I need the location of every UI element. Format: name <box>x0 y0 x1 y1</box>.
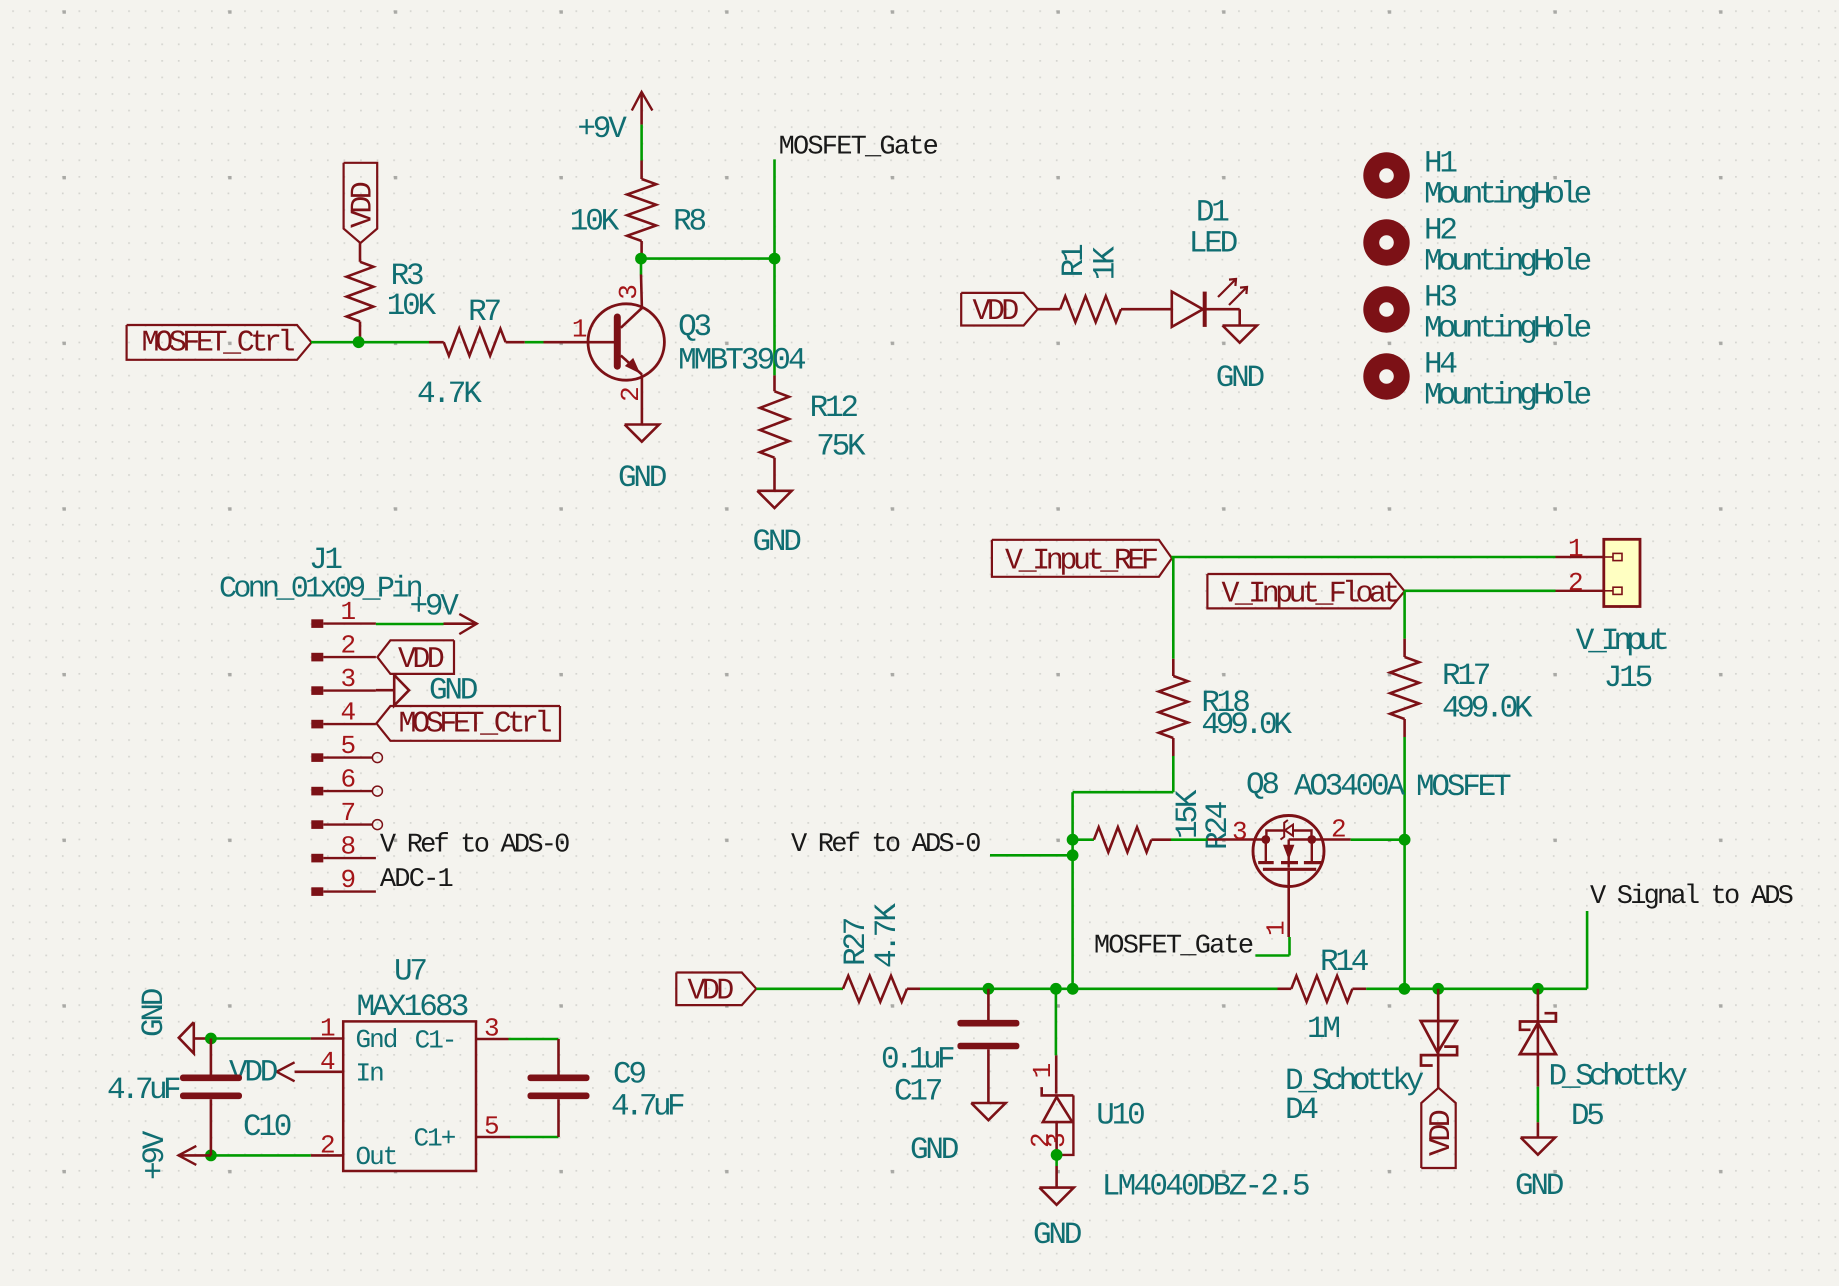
svg-text:In: In <box>356 1059 384 1089</box>
svg-text:6: 6 <box>341 765 355 795</box>
wire D4 to VDD <box>1437 1055 1440 1088</box>
wire MOSFET_Gate vertical <box>773 159 776 375</box>
resistor R24 <box>1094 789 1236 852</box>
wire R18 bottom corner <box>1172 756 1175 792</box>
wire bottom bus right <box>1366 987 1587 990</box>
svg-text:C10: C10 <box>243 1110 291 1145</box>
resistor R17 <box>1390 639 1533 737</box>
junction V Ref lower <box>1067 849 1079 861</box>
resistor R27 <box>839 903 920 1002</box>
global label VDD at R27 <box>676 973 756 1009</box>
svg-text:Gnd: Gnd <box>356 1025 397 1055</box>
pin 3 of J1 <box>311 664 376 695</box>
junction C10 bottom <box>205 1150 217 1162</box>
capacitor C17 <box>881 989 1019 1110</box>
wire bus to D4 <box>1437 989 1440 1021</box>
junction D5 <box>1532 983 1544 995</box>
svg-text:V Ref to ADS-0: V Ref to ADS-0 <box>791 830 980 860</box>
svg-text:7: 7 <box>341 798 355 828</box>
resistor R18 <box>1159 659 1293 756</box>
wire node to R24 <box>1073 838 1094 841</box>
svg-text:MountingHole: MountingHole <box>1424 312 1591 347</box>
capacitor C10 <box>107 1039 291 1156</box>
svg-text:LED: LED <box>1189 227 1238 262</box>
svg-text:Q8: Q8 <box>1246 768 1278 803</box>
pin 9 of J1 <box>311 865 376 896</box>
svg-text:AO3400A: AO3400A <box>1294 770 1405 805</box>
svg-text:H1: H1 <box>1424 147 1457 182</box>
transistor Q8 AO3400A <box>1207 768 1511 937</box>
junction MOSFET_Gate column <box>769 253 781 265</box>
svg-text:2: 2 <box>1331 815 1345 845</box>
pin 6 of J1 (unconnected) <box>311 765 373 796</box>
pin 1 of J1 <box>311 597 376 628</box>
connector J1 <box>219 543 422 607</box>
wire D5 to GND <box>1537 1054 1540 1087</box>
power +9V at J1 pin1 <box>410 590 477 635</box>
svg-text:MOSFET_Gate: MOSFET_Gate <box>1094 932 1253 962</box>
mounting hole H2 <box>1363 214 1590 280</box>
global label VDD at D4 <box>1421 1088 1459 1168</box>
svg-text:2: 2 <box>616 388 646 402</box>
svg-text:VDD: VDD <box>347 182 381 228</box>
svg-text:R8: R8 <box>673 205 705 240</box>
svg-text:GND: GND <box>1216 361 1265 396</box>
svg-text:1K: 1K <box>1089 246 1124 280</box>
svg-text:1M: 1M <box>1307 1012 1339 1047</box>
svg-text:9: 9 <box>341 865 355 895</box>
svg-text:D_Schottky: D_Schottky <box>1549 1060 1688 1095</box>
wire D1 to GND <box>1205 308 1240 311</box>
wire U7 pin5 to C9 <box>510 1136 559 1139</box>
svg-text:4.7uF: 4.7uF <box>107 1073 180 1108</box>
svg-text:VDD: VDD <box>688 975 734 1009</box>
junction V Ref upper <box>1067 834 1079 846</box>
junction R17/drain column bottom <box>1399 983 1411 995</box>
wire bottom bus left <box>920 987 1278 990</box>
mounting hole H4 <box>1363 348 1590 414</box>
svg-text:V Ref to ADS-0: V Ref to ADS-0 <box>380 831 569 861</box>
resistor R1 <box>1038 244 1172 322</box>
svg-text:R17: R17 <box>1442 659 1490 694</box>
svg-text:GND: GND <box>910 1133 959 1168</box>
svg-text:5: 5 <box>484 1112 498 1142</box>
svg-text:GND: GND <box>137 988 172 1037</box>
svg-text:MAX1683: MAX1683 <box>357 990 468 1025</box>
pin 5 of U7 (C1+) <box>414 1112 511 1154</box>
power VDD at U7 pin4 <box>229 1056 295 1091</box>
wire collector drop <box>640 259 643 275</box>
svg-text:LM4040DBZ-2.5: LM4040DBZ-2.5 <box>1102 1170 1309 1205</box>
pin 3 of U7 (C1-) <box>415 1014 509 1056</box>
wire MOSFET_Ctrl to R7 <box>311 341 429 344</box>
svg-text:D1: D1 <box>1196 196 1229 231</box>
svg-text:4.7K: 4.7K <box>870 903 905 968</box>
svg-text:3: 3 <box>614 286 644 300</box>
wire Q8 drain to R17 column <box>1351 838 1405 841</box>
svg-text:Conn_01x09_Pin: Conn_01x09_Pin <box>219 573 422 607</box>
svg-text:+9V: +9V <box>577 112 627 147</box>
svg-text:MOSFET: MOSFET <box>1416 770 1511 805</box>
wire U7 pin3 to C9 <box>509 1038 559 1041</box>
wire V Signal to ADS drop <box>1586 911 1589 989</box>
svg-text:3: 3 <box>341 664 355 694</box>
wire bus to U10 <box>1055 989 1058 1056</box>
svg-text:GND: GND <box>429 674 478 709</box>
voltage reference U10 LM4040DBZ-2.5 <box>1026 1055 1309 1204</box>
pin 1 of U7 (Gnd) <box>311 1014 397 1056</box>
global label MOSFET_Ctrl (left) <box>127 325 312 360</box>
svg-text:ADC-1: ADC-1 <box>380 865 453 895</box>
wire V_Input_REF drop to R18 <box>1172 557 1175 659</box>
svg-text:4.7uF: 4.7uF <box>611 1090 684 1125</box>
resistor R14 <box>1278 945 1369 1047</box>
svg-text:V Signal to ADS: V Signal to ADS <box>1590 882 1793 912</box>
svg-text:8: 8 <box>341 832 355 862</box>
svg-text:4.7K: 4.7K <box>417 377 482 412</box>
svg-text:R27: R27 <box>839 918 874 966</box>
svg-text:VDD: VDD <box>973 295 1019 329</box>
pin 4 of J1 <box>311 698 376 729</box>
svg-text:75K: 75K <box>816 430 866 465</box>
svg-text:2: 2 <box>341 631 355 661</box>
power +9V at U7 pin2 <box>138 1130 211 1180</box>
svg-text:H3: H3 <box>1424 281 1456 316</box>
svg-text:+9V: +9V <box>138 1130 173 1180</box>
junction drain/R17 <box>1399 834 1411 846</box>
svg-text:3: 3 <box>1042 1134 1072 1148</box>
transistor Q3 MMBT3904 <box>544 275 807 425</box>
svg-text:U7: U7 <box>394 955 426 990</box>
svg-text:MMBT3904: MMBT3904 <box>678 343 806 378</box>
LED D1 <box>1172 196 1247 327</box>
resistor R3 <box>347 243 437 342</box>
junction C17 <box>983 983 995 995</box>
svg-text:Out: Out <box>356 1142 397 1172</box>
wire GND node to U7 pin1 <box>206 1037 311 1040</box>
svg-text:5: 5 <box>341 731 355 761</box>
junction C10 top <box>205 1033 217 1045</box>
svg-text:R7: R7 <box>468 295 500 330</box>
power GND at J1 pin3 <box>376 674 478 709</box>
svg-text:Q3: Q3 <box>678 310 710 345</box>
power +9V top <box>577 92 652 147</box>
resistor R8 <box>570 161 706 259</box>
svg-text:V_Input_REF: V_Input_REF <box>1005 545 1157 579</box>
diode D5 D_Schottky <box>1520 1013 1687 1134</box>
svg-text:R12: R12 <box>810 391 858 426</box>
IC U7 MAX1683 <box>343 955 476 1172</box>
junction U10 bottom <box>1051 1149 1063 1161</box>
svg-text:GND: GND <box>1033 1218 1082 1253</box>
global label VDD at J1 pin2 <box>377 640 454 677</box>
global label V_Input_REF <box>992 540 1172 579</box>
svg-text:D4: D4 <box>1285 1093 1318 1128</box>
wire R17 to drain column <box>1403 737 1406 989</box>
junction R3/MOSFET_Ctrl <box>353 336 365 348</box>
ground C17 <box>910 1103 1006 1168</box>
svg-text:2: 2 <box>320 1131 334 1161</box>
svg-text:3: 3 <box>1232 817 1246 847</box>
resistor R12 <box>760 375 866 490</box>
svg-text:GND: GND <box>753 525 802 560</box>
svg-text:MOSFET_Gate: MOSFET_Gate <box>779 133 938 163</box>
svg-text:D5: D5 <box>1571 1099 1603 1134</box>
svg-text:H2: H2 <box>1424 214 1456 249</box>
svg-text:GND: GND <box>1515 1169 1564 1204</box>
svg-text:C1-: C1- <box>415 1026 456 1056</box>
wire collector node bus <box>641 257 775 260</box>
pin 2 of J1 <box>311 631 376 662</box>
global label VDD at R3 top <box>344 163 381 243</box>
svg-text:R14: R14 <box>1320 945 1369 980</box>
wire V_Input_Float drop to R17 <box>1403 591 1406 639</box>
wire +9V to R8 <box>640 125 643 161</box>
junction U10 <box>1050 983 1062 995</box>
svg-text:VDD: VDD <box>229 1056 278 1091</box>
svg-text:2: 2 <box>1568 568 1582 598</box>
svg-text:H4: H4 <box>1424 348 1457 383</box>
svg-text:C1+: C1+ <box>414 1124 456 1154</box>
svg-text:10K: 10K <box>570 205 620 240</box>
junction V Ref column <box>1067 983 1079 995</box>
wire VDD to R27 <box>756 987 843 990</box>
capacitor C9 <box>528 1039 685 1137</box>
junction D4 <box>1432 983 1444 995</box>
wire MOSFET_Gate to Q8 source <box>1255 954 1289 957</box>
wire R7 to Q3 base <box>525 341 544 344</box>
mounting hole H3 <box>1363 281 1590 347</box>
svg-text:MountingHole: MountingHole <box>1424 245 1591 280</box>
wire J1 pin1 to +9V <box>376 623 444 626</box>
svg-text:499.0K: 499.0K <box>1442 692 1533 727</box>
power GND at U7 pin1 <box>137 988 206 1053</box>
svg-text:V_Input: V_Input <box>1576 624 1668 659</box>
resistor R7 <box>417 295 525 412</box>
ground D5 <box>1515 1138 1564 1205</box>
pin 2 of U7 (Out) <box>311 1131 397 1173</box>
svg-text:VDD: VDD <box>398 643 444 677</box>
wire V_Input_Float to J15 pin2 <box>1405 589 1556 592</box>
svg-text:R1: R1 <box>1057 244 1092 277</box>
svg-text:MountingHole: MountingHole <box>1424 178 1591 213</box>
wire bus to D5 <box>1537 989 1540 1022</box>
svg-text:+9V: +9V <box>410 590 460 625</box>
svg-text:C9: C9 <box>613 1058 645 1093</box>
ground Q3 emitter <box>618 425 667 497</box>
pin 5 of J1 (unconnected) <box>311 731 373 762</box>
svg-text:U10: U10 <box>1096 1099 1144 1134</box>
global label VDD at R1 <box>961 293 1037 329</box>
wire R24 to Q8 gate <box>1171 838 1207 841</box>
wire U7 pin2 to +9V <box>211 1154 311 1157</box>
diode D4 D_Schottky <box>1285 1021 1457 1128</box>
wire U10 to GND <box>1055 1155 1058 1166</box>
global label MOSFET_Ctrl at J1 pin4 <box>376 706 560 742</box>
pin 7 of J1 (unconnected) <box>311 798 373 829</box>
global label V_Input_Float <box>1207 574 1404 612</box>
junction R8 bottom <box>635 253 647 265</box>
svg-text:3: 3 <box>484 1014 498 1044</box>
svg-text:MOSFET_Ctrl: MOSFET_Ctrl <box>399 708 552 742</box>
svg-text:499.0K: 499.0K <box>1201 708 1292 743</box>
connector J15 V_Input <box>1556 534 1668 696</box>
wire V Ref to ADS-0 <box>990 854 1073 857</box>
ground U10 <box>1033 1188 1082 1253</box>
mounting hole H1 <box>1363 147 1590 213</box>
svg-text:V_Input_Float: V_Input_Float <box>1222 578 1398 612</box>
pin 4 of U7 (In) <box>295 1047 384 1089</box>
svg-text:VDD: VDD <box>1425 1110 1459 1156</box>
svg-text:MountingHole: MountingHole <box>1424 379 1591 414</box>
pin 8 of J1 <box>311 832 376 863</box>
wire V_Input_REF to J15 pin1 <box>1171 556 1555 559</box>
svg-text:0.1uF: 0.1uF <box>881 1043 954 1078</box>
ground D1 <box>1216 326 1265 397</box>
svg-text:C17: C17 <box>894 1075 942 1110</box>
ground R12 <box>753 491 802 560</box>
svg-text:MOSFET_Ctrl: MOSFET_Ctrl <box>142 326 295 360</box>
svg-text:GND: GND <box>618 461 667 496</box>
svg-text:J15: J15 <box>1604 661 1652 696</box>
svg-text:R24: R24 <box>1201 801 1236 850</box>
svg-text:10K: 10K <box>387 289 437 324</box>
